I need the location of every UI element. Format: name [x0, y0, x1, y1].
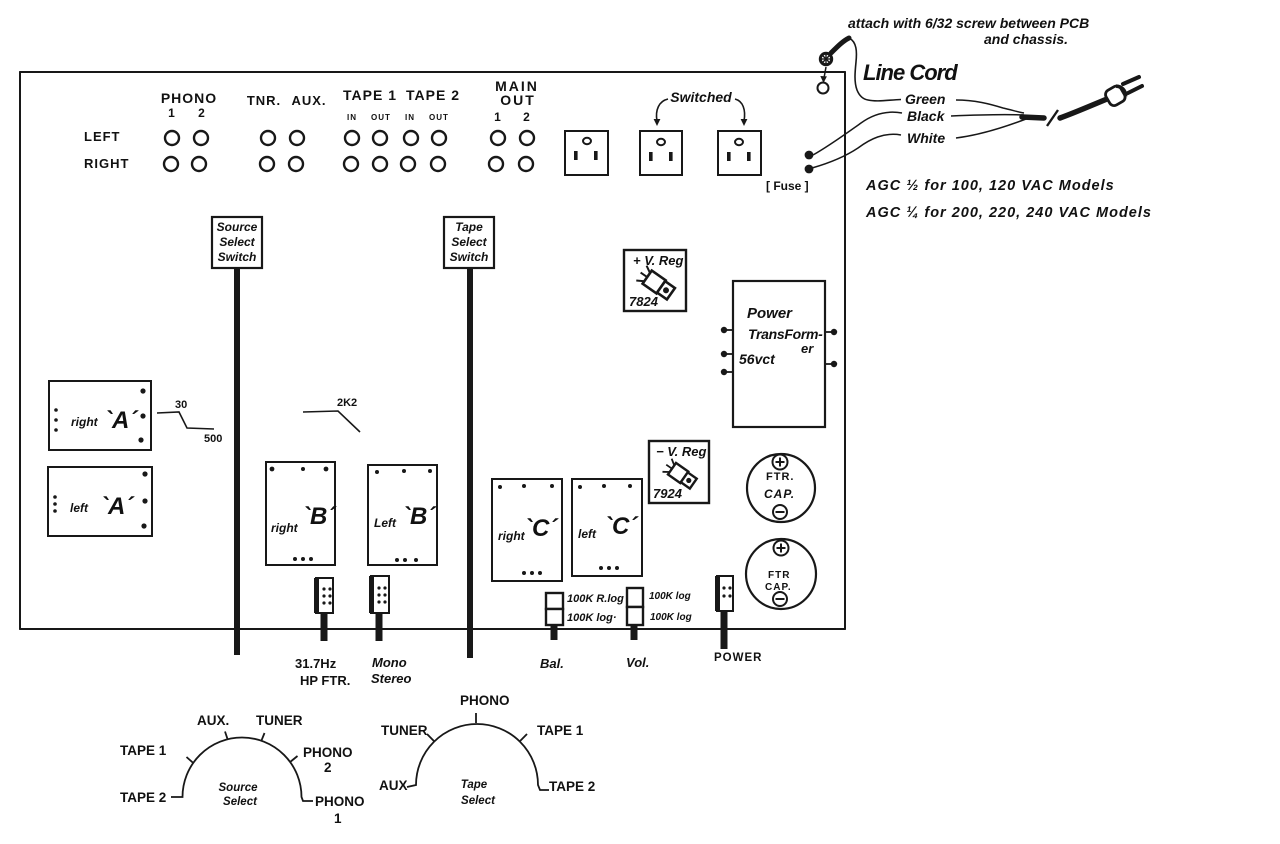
- svg-text:TransForm-: TransForm-: [748, 326, 823, 342]
- svg-text:AGC ¼ for 200, 220, 240 VAC Mo: AGC ¼ for 200, 220, 240 VAC Models: [865, 205, 1152, 221]
- svg-text:AUX.: AUX.: [197, 713, 229, 728]
- svg-text:`B´: `B´: [402, 503, 437, 530]
- svg-text:TAPE 2: TAPE 2: [120, 790, 166, 805]
- svg-text:100K log·: 100K log·: [567, 612, 617, 624]
- svg-text:TNR.: TNR.: [247, 93, 281, 108]
- svg-text:LEFT: LEFT: [84, 129, 121, 144]
- svg-text:Bal.: Bal.: [540, 656, 564, 671]
- svg-text:Left: Left: [374, 516, 397, 530]
- svg-text:Stereo: Stereo: [371, 671, 412, 686]
- svg-text:100K log: 100K log: [650, 612, 692, 623]
- svg-text:OUT: OUT: [371, 113, 391, 122]
- svg-text:PHONO: PHONO: [161, 90, 217, 106]
- svg-text:IN: IN: [347, 113, 357, 122]
- svg-text:TUNER: TUNER: [381, 723, 428, 738]
- svg-text:100K R.log: 100K R.log: [567, 593, 624, 605]
- svg-text:TAPE 1: TAPE 1: [537, 723, 584, 738]
- svg-text:FTR: FTR: [768, 570, 790, 581]
- svg-text:TAPE 1: TAPE 1: [343, 87, 397, 103]
- svg-text:Source: Source: [217, 220, 258, 234]
- svg-text:Select: Select: [219, 235, 255, 249]
- svg-text:56vct: 56vct: [739, 351, 776, 367]
- svg-text:left: left: [70, 501, 89, 515]
- svg-text:White: White: [907, 130, 945, 146]
- svg-text:AUX.: AUX.: [291, 93, 326, 108]
- svg-text:Switch: Switch: [450, 250, 489, 264]
- svg-text:`C´: `C´: [604, 513, 639, 540]
- svg-text:+ V. Reg: + V. Reg: [633, 253, 684, 268]
- svg-text:TAPE 2: TAPE 2: [406, 87, 460, 103]
- svg-text:AUX: AUX: [379, 778, 408, 793]
- svg-text:CAP.: CAP.: [764, 487, 795, 501]
- svg-text:30: 30: [175, 399, 187, 411]
- svg-text:2K2: 2K2: [337, 397, 357, 409]
- svg-text:IN: IN: [405, 113, 415, 122]
- svg-text:Tape: Tape: [455, 220, 483, 234]
- svg-text:er: er: [801, 341, 814, 356]
- svg-text:1: 1: [168, 106, 176, 120]
- svg-text:Select: Select: [461, 795, 496, 807]
- svg-text:7824: 7824: [629, 294, 659, 309]
- svg-text:1: 1: [334, 811, 342, 826]
- svg-text:Black: Black: [907, 108, 946, 124]
- svg-text:Line Cord: Line Cord: [863, 60, 958, 85]
- svg-text:and chassis.: and chassis.: [984, 31, 1068, 47]
- svg-text:right: right: [271, 521, 299, 535]
- svg-text:Tape: Tape: [461, 779, 488, 791]
- svg-text:Vol.: Vol.: [626, 655, 649, 670]
- svg-text:`B´: `B´: [302, 503, 337, 530]
- svg-text:left: left: [578, 527, 597, 541]
- svg-text:2: 2: [523, 110, 531, 124]
- svg-text:FTR.: FTR.: [766, 471, 794, 483]
- svg-text:RIGHT: RIGHT: [84, 156, 129, 171]
- svg-text:Select: Select: [451, 235, 487, 249]
- svg-text:AGC ½ for 100, 120 VAC Models: AGC ½ for 100, 120 VAC Models: [865, 178, 1115, 194]
- svg-text:TAPE 1: TAPE 1: [120, 743, 167, 758]
- svg-text:31.7Hz: 31.7Hz: [295, 656, 337, 671]
- svg-text:POWER: POWER: [714, 652, 762, 664]
- svg-text:− V. Reg: − V. Reg: [656, 444, 707, 459]
- svg-text:PHONO: PHONO: [303, 745, 353, 760]
- svg-text:Mono: Mono: [372, 655, 407, 670]
- svg-text:Select: Select: [223, 796, 258, 808]
- svg-text:PHONO: PHONO: [315, 794, 365, 809]
- svg-text:Green: Green: [905, 91, 945, 107]
- svg-text:right: right: [71, 415, 99, 429]
- svg-text:7924: 7924: [653, 486, 683, 501]
- svg-text:`A´: `A´: [100, 493, 135, 520]
- svg-text:[ Fuse ]: [ Fuse ]: [766, 179, 809, 193]
- svg-text:TUNER: TUNER: [256, 713, 303, 728]
- svg-text:2: 2: [198, 106, 206, 120]
- svg-text:HP FTR.: HP FTR.: [300, 673, 350, 688]
- svg-text:TAPE 2: TAPE 2: [549, 779, 595, 794]
- svg-text:attach with 6/32 screw between: attach with 6/32 screw between PCB: [848, 15, 1089, 31]
- svg-text:`A´: `A´: [104, 407, 139, 434]
- svg-text:Switch: Switch: [218, 250, 257, 264]
- svg-text:1: 1: [494, 110, 502, 124]
- svg-text:2: 2: [324, 760, 332, 775]
- svg-text:OUT: OUT: [429, 113, 449, 122]
- svg-text:PHONO: PHONO: [460, 693, 510, 708]
- svg-text:right: right: [498, 529, 526, 543]
- svg-text:Source: Source: [219, 782, 259, 794]
- svg-text:Switched: Switched: [670, 89, 732, 105]
- svg-text:`C´: `C´: [524, 515, 559, 542]
- svg-text:100K log: 100K log: [649, 591, 691, 602]
- svg-text:500: 500: [204, 433, 222, 445]
- svg-text:OUT: OUT: [500, 92, 536, 108]
- svg-text:Power: Power: [747, 305, 793, 322]
